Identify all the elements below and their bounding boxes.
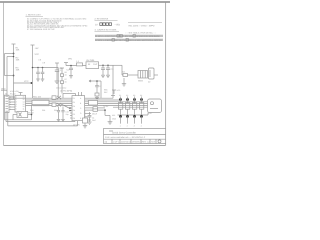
pin number labels switch tails xyxy=(120,124,142,127)
pin labels J1 xyxy=(10,96,11,111)
svg-text:+5V: +5V xyxy=(35,47,39,50)
wire switch common xyxy=(118,114,149,116)
ground symbol under D1 xyxy=(122,78,126,86)
svg-text:3: 3 xyxy=(134,124,135,127)
title block bottom text xyxy=(105,140,156,143)
wire diagonal xyxy=(60,104,70,109)
bus wire 4 xyxy=(26,103,148,105)
regulator U5 xyxy=(86,62,99,69)
border frame top edge xyxy=(0,1,170,3)
value label D1 xyxy=(123,71,127,74)
value label C4 xyxy=(92,117,94,120)
value label J2 xyxy=(148,80,151,83)
net labels near C7 xyxy=(104,88,108,93)
net flag arrow xyxy=(89,80,101,82)
wire U2 top pins xyxy=(63,92,82,98)
svg-text:S4: S4 xyxy=(140,94,142,97)
power symbol VCC feed xyxy=(64,63,68,66)
svg-text:C4: C4 xyxy=(92,117,94,120)
svg-text:C7: C7 xyxy=(99,85,101,88)
wire stub tick xyxy=(111,95,115,97)
svg-text:‒ RD: ‒ RD xyxy=(115,23,121,26)
value label L1 xyxy=(77,60,80,63)
capacitor C6 with ground xyxy=(83,110,88,128)
value label C8 xyxy=(39,58,42,61)
svg-text:REL DATE ‒ CHKD ‒ APPD: REL DATE ‒ CHKD ‒ APPD xyxy=(129,24,155,27)
value label U1 xyxy=(10,95,35,115)
wire U2 right stub 1 xyxy=(85,113,91,115)
wire crystal loop xyxy=(5,105,32,120)
bus wire 5 xyxy=(26,104,148,106)
revision table row xyxy=(95,23,155,27)
svg-text:P1: P1 xyxy=(73,97,75,100)
capacitor C9 xyxy=(41,68,45,82)
node junction bracket xyxy=(13,56,15,58)
crystal Y1 in box xyxy=(17,112,28,118)
wire to bus from cap branch xyxy=(57,68,59,99)
crystal X2 xyxy=(52,103,61,107)
value labels R6 R7 xyxy=(65,71,68,83)
wire pullup vertical xyxy=(100,81,102,98)
node junction xyxy=(104,109,106,111)
notes block header xyxy=(26,14,44,17)
node junctions on cap branch xyxy=(32,67,44,69)
jumpers block header xyxy=(95,29,158,35)
pin labels U1 xyxy=(16,96,25,111)
jumpers block rows xyxy=(95,35,162,42)
capacitor C4 with ground xyxy=(88,112,92,124)
wire cap branch xyxy=(33,67,59,69)
net label xyxy=(68,57,72,60)
svg-text:U5 7805: U5 7805 xyxy=(86,59,95,62)
capacitor C8 xyxy=(36,68,40,82)
svg-text:S1: S1 xyxy=(119,94,121,97)
wire vertical rail x13.5 xyxy=(13,44,15,99)
resistor R5 inline xyxy=(93,109,98,111)
svg-text:TX RX: TX RX xyxy=(103,105,109,108)
svg-text:S2: S2 xyxy=(126,94,128,97)
title block title text xyxy=(112,132,136,135)
wire U2 right data 2 xyxy=(85,109,105,111)
wire switch tails xyxy=(121,116,142,123)
svg-text:VCC: VCC xyxy=(24,80,29,83)
svg-text:GND: GND xyxy=(112,117,117,120)
svg-text:RN1 10K: RN1 10K xyxy=(33,96,42,99)
switch S4 xyxy=(139,103,143,110)
svg-text:VCC: VCC xyxy=(117,89,121,92)
capacitor C7 with box xyxy=(95,81,99,99)
svg-text:4: 4 xyxy=(141,124,142,127)
value label C2 C3 xyxy=(111,68,115,71)
node junction xyxy=(31,114,33,116)
border frame right edge xyxy=(165,3,167,146)
resistor R4 inline xyxy=(93,107,98,109)
resistor R3 xyxy=(16,67,20,72)
wire to ground mid xyxy=(105,110,110,121)
revision block header xyxy=(95,18,118,21)
power symbol switch bank xyxy=(112,90,116,94)
svg-text:2: 2 xyxy=(127,124,128,127)
svg-text:P5: P5 xyxy=(73,113,75,116)
connector J1 left xyxy=(5,95,16,112)
resistor R2 xyxy=(16,57,20,62)
pin stubs RN1 xyxy=(34,98,48,106)
svg-text:DRAWN: K: DRAWN: K xyxy=(132,140,143,143)
capacitor C5 with ground xyxy=(55,63,60,83)
crystal X1 xyxy=(52,96,61,99)
svg-text:10: 10 xyxy=(95,23,98,26)
title block page circle xyxy=(158,140,161,143)
wire bracket left xyxy=(5,54,14,97)
net labels under bus xyxy=(30,109,57,112)
svg-text:C8: C8 xyxy=(39,58,42,61)
border frame left edge xyxy=(3,3,5,146)
node junction dots row upper xyxy=(119,98,143,101)
revision table top rule xyxy=(128,21,162,23)
resistor network RN1 xyxy=(32,100,49,104)
border frame bottom edge xyxy=(4,145,166,147)
wire to bus vertical xyxy=(112,65,114,98)
value labels C10 C11 xyxy=(66,110,69,116)
svg-text:C1: C1 xyxy=(67,69,71,72)
diode D1 inline xyxy=(122,74,138,77)
bus wire 1 xyxy=(8,97,113,99)
value label C5 xyxy=(60,67,64,72)
power symbol VCC rail 2 xyxy=(31,45,35,98)
svg-text:C9: C9 xyxy=(43,61,46,64)
bus wire 3 xyxy=(26,101,148,103)
svg-text:REV 1.2: REV 1.2 xyxy=(142,140,150,143)
svg-text:1: 1 xyxy=(120,124,121,127)
IC U2 xyxy=(72,96,85,121)
svg-text:VCC: VCC xyxy=(35,53,40,56)
svg-text:P4: P4 xyxy=(73,109,75,112)
capacitor C11 xyxy=(61,107,65,122)
value label J1 xyxy=(5,92,8,95)
node junction dots on rail xyxy=(13,53,15,77)
svg-text:MCLR: MCLR xyxy=(92,112,98,115)
power rail VCC R-chain xyxy=(12,44,16,99)
wire supply horizontal xyxy=(66,65,86,67)
wire jack to common xyxy=(147,113,149,116)
svg-text:FILE: servo-controller.sch — R: FILE: servo-controller.sch — REVISION 1.… xyxy=(105,136,146,139)
wire branch to power jack xyxy=(113,65,122,75)
wire U2 right data 1 xyxy=(85,107,105,109)
label header top U1 xyxy=(10,90,19,95)
svg-text:Serial Servo Controller: Serial Servo Controller xyxy=(112,132,136,135)
resistor R1 xyxy=(16,47,20,52)
pin labels U2 xyxy=(73,97,82,120)
svg-text:11: 11 xyxy=(23,108,25,111)
node junctions on output xyxy=(102,65,109,67)
bus wire 2 xyxy=(26,99,121,101)
svg-text:07 SEE MANUAL FOR SETUP: 07 SEE MANUAL FOR SETUP xyxy=(27,28,55,31)
wire switch verticals xyxy=(121,97,142,117)
node junction xyxy=(96,80,98,82)
svg-text:2003-04-18: 2003-04-18 xyxy=(121,140,132,143)
inductor L1 inline xyxy=(77,63,83,66)
net label xyxy=(24,80,29,83)
svg-text:RB7: RB7 xyxy=(104,91,108,94)
revision row boxes xyxy=(100,23,112,26)
wire regulator output xyxy=(99,64,114,66)
svg-text:11 JP1 1‒2 INT CLK 2‒3 EXT JP2: 11 JP1 1‒2 INT CLK 2‒3 EXT JP2 OPEN NORM… xyxy=(95,35,160,38)
svg-text:22p: 22p xyxy=(66,113,69,116)
value label C1 xyxy=(67,69,71,72)
svg-text:L1: L1 xyxy=(77,60,80,63)
resistor chain R6 R7 xyxy=(60,68,64,94)
IC U1 xyxy=(15,95,26,112)
value label U2 xyxy=(56,87,81,127)
svg-text:1K: 1K xyxy=(65,80,68,83)
title block tab xyxy=(109,130,113,132)
capacitor C1 with ground xyxy=(69,66,73,79)
svg-text:U2 PIC16F84: U2 PIC16F84 xyxy=(60,90,73,93)
switch S5 power xyxy=(138,71,148,79)
svg-text:6: 6 xyxy=(10,108,11,111)
net label GND left edge xyxy=(1,87,7,90)
svg-text:OUT: OUT xyxy=(93,63,98,66)
capacitor C10 xyxy=(57,107,61,122)
svg-text:SCH: SCH xyxy=(151,140,156,143)
value label RN1 xyxy=(33,96,42,99)
svg-text:SEL: SEL xyxy=(112,114,115,117)
svg-text:VIN: VIN xyxy=(68,57,72,60)
svg-text:1K: 1K xyxy=(65,73,68,76)
svg-text:PB2: PB2 xyxy=(54,109,57,112)
title block outline xyxy=(104,129,166,144)
svg-text:S3: S3 xyxy=(133,94,135,97)
value label C9 xyxy=(43,61,46,64)
node VCC tap xyxy=(14,82,33,84)
node junction dots row lower xyxy=(119,115,143,118)
svg-text:P2: P2 xyxy=(73,101,75,104)
wire return C xyxy=(8,113,78,126)
net label right top xyxy=(149,112,154,115)
value label C7 xyxy=(99,85,101,88)
label cluster right of resistors xyxy=(103,105,109,108)
switch S2 xyxy=(125,103,129,110)
node junction dots U2 left xyxy=(69,107,71,111)
title block file row xyxy=(105,136,146,139)
svg-text:OSC1 OSC2: OSC1 OSC2 xyxy=(56,87,66,90)
svg-text:PB1: PB1 xyxy=(42,109,45,112)
switch S3 xyxy=(132,103,136,110)
svg-text:10K: 10K xyxy=(16,59,20,62)
jumpers rows shading xyxy=(95,35,163,41)
net labels switch bank xyxy=(117,89,143,97)
svg-text:P3: P3 xyxy=(73,105,75,108)
svg-text:10K: 10K xyxy=(16,49,20,52)
ground symbol mid-bottom xyxy=(108,122,113,124)
svg-text:10K: 10K xyxy=(16,69,20,72)
connector J3 right xyxy=(148,99,162,113)
wire return B xyxy=(6,113,75,122)
notes block list xyxy=(27,18,88,31)
value label S5 xyxy=(138,79,144,82)
net label VCC xyxy=(35,47,40,56)
title block bottom cells xyxy=(112,139,156,143)
svg-text:C10: C10 xyxy=(66,110,69,113)
svg-text:C3: C3 xyxy=(111,68,115,71)
svg-text:J2: J2 xyxy=(148,80,151,83)
pin stubs U2 left xyxy=(70,108,72,118)
svg-text:1 OF 1: 1 OF 1 xyxy=(113,140,120,143)
jumpers row boxes xyxy=(112,35,135,42)
connector J2 power jack xyxy=(149,68,159,79)
resistor network RN2 on bus xyxy=(89,100,98,105)
bus wire 6 xyxy=(113,106,148,108)
capacitor C3 with ground xyxy=(106,65,110,77)
wire U2 right stub 3 xyxy=(85,119,91,121)
wire U2 right stub 2 xyxy=(85,116,91,118)
power stub U1 top xyxy=(19,93,23,96)
net labels U2 stubs xyxy=(92,112,98,122)
svg-text:6: 6 xyxy=(16,108,17,111)
svg-text:SW3: SW3 xyxy=(138,79,144,82)
switch S1 xyxy=(118,103,122,110)
node junction xyxy=(70,65,72,67)
value label U5 7805 xyxy=(86,59,98,66)
svg-text:P6: P6 xyxy=(73,117,75,120)
capacitor C2 with ground xyxy=(101,65,105,77)
net label left of switch rows xyxy=(112,114,117,120)
